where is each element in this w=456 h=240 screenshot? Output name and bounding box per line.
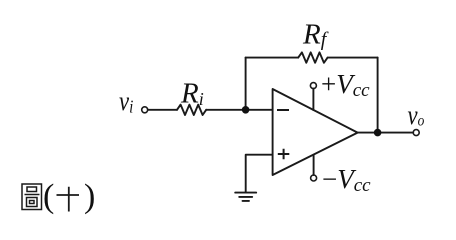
svg-text:vi: vi: [119, 87, 134, 117]
wire node A up to feedback: [245, 58, 247, 110]
resistor R1 Ri: [177, 105, 206, 115]
op-amp U1 triangle: [273, 89, 358, 175]
svg-text:): ): [84, 178, 95, 215]
wire top left segment: [246, 57, 299, 59]
figure caption: character 圖 drawn as strokes: [22, 184, 42, 210]
terminal output (open circle): [413, 130, 419, 136]
label v_i: [119, 87, 134, 117]
svg-text:(: (: [43, 178, 54, 215]
svg-text:+Vcc: +Vcc: [321, 69, 370, 101]
resistor R2 Rf: [298, 52, 327, 62]
minus sign (inverting input): [277, 109, 289, 111]
svg-text:Rf: Rf: [302, 19, 329, 51]
svg-text:−Vcc: −Vcc: [322, 164, 371, 196]
terminal -Vcc (open circle): [311, 175, 317, 181]
label v_o: [408, 101, 425, 130]
wire top right segment: [328, 57, 378, 59]
wire feedback down to output node: [377, 58, 379, 133]
plus sign (non-inverting input): [278, 149, 290, 160]
ground symbol: [235, 193, 256, 201]
node A junction dot: [242, 106, 250, 114]
svg-text:Ri: Ri: [180, 77, 204, 109]
output node junction dot: [374, 129, 382, 137]
figure caption: character 十 drawn as strokes: [57, 187, 80, 212]
terminal input (open circle): [142, 107, 148, 113]
terminal +Vcc (open circle): [310, 83, 316, 89]
wire plus input from triangle to corner: [246, 155, 273, 193]
wire -Vcc stub: [313, 155, 315, 175]
wire output apex to terminal: [358, 132, 414, 134]
wire input to resistor Ri: [148, 109, 177, 111]
wire +Vcc stub: [312, 89, 314, 110]
svg-text:vo: vo: [408, 101, 425, 130]
wire Ri to node A: [206, 109, 272, 111]
